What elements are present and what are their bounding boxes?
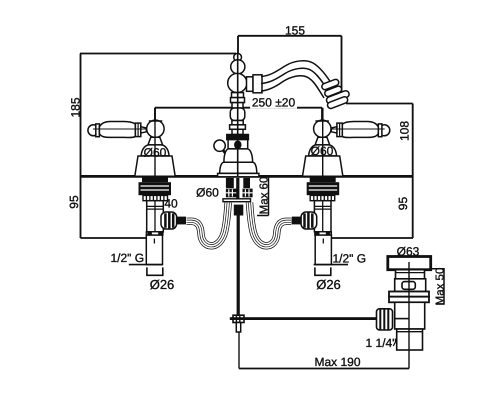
right hose nipple block (243, 178, 250, 188)
max60 bracket (257, 177, 269, 216)
svg-text:95: 95 (67, 195, 81, 209)
svg-text:250 ±20: 250 ±20 (252, 96, 296, 110)
spout root collar big (253, 75, 262, 93)
left hose nipple block (226, 178, 234, 188)
spout tube middle curve (261, 68, 329, 91)
base skirt (218, 173, 259, 176)
valve body below deck (147, 201, 164, 232)
tailpiece centerline stub (153, 239, 155, 244)
column centerline overlay (237, 54, 239, 176)
svg-text:Ø60: Ø60 (311, 144, 334, 158)
155 dim line (238, 35, 342, 37)
column ring 1 (232, 121, 243, 125)
centerline lower (154, 121, 156, 176)
spout root collar small (247, 77, 254, 92)
clevis (233, 315, 244, 322)
svg-text:1 1/4": 1 1/4" (366, 336, 397, 350)
tailpiece line (397, 331, 423, 333)
drain ring 1 (389, 292, 429, 297)
overflow window (402, 282, 415, 290)
set screw dot (235, 141, 241, 148)
valve dome (141, 145, 169, 156)
svg-text:Max 190: Max 190 (314, 355, 360, 369)
outlet hub ribs (165, 212, 173, 228)
max190 left extension (238, 332, 240, 369)
handle ball joint (147, 120, 164, 137)
ball joint top cap (149, 120, 163, 122)
linkage knob (377, 309, 393, 330)
handle collar rings (135, 123, 140, 137)
svg-text:Ø26: Ø26 (316, 277, 341, 292)
locking collar band (142, 177, 168, 182)
drain neck line (396, 272, 425, 274)
escutcheon (135, 156, 175, 176)
linkage knob ridges (380, 309, 388, 330)
max50 bracket (431, 269, 444, 304)
155 left drop to faucet (237, 36, 239, 54)
drain top cap (388, 257, 431, 270)
Ø26 bracket (147, 267, 163, 275)
spout tube top curve (261, 61, 333, 86)
left 1/2G leader (129, 264, 163, 266)
connection bar (223, 199, 251, 202)
right 1/2G leader (314, 264, 348, 266)
valve centerline (154, 108, 156, 176)
ribbed flange (143, 195, 168, 200)
stem flare (148, 137, 163, 145)
right hose nut slits (243, 189, 253, 196)
finial ball 2 (231, 60, 245, 74)
right vertical (108/95 extension) (412, 104, 414, 239)
spout joint ball (228, 73, 247, 92)
svg-text:95: 95 (396, 197, 410, 211)
svg-text:1/2" G: 1/2" G (111, 251, 145, 265)
column collar band 2 (231, 98, 245, 103)
flex hose to mixer (187, 203, 229, 246)
max190 dim line (239, 368, 409, 370)
svg-text:1/2" G: 1/2" G (333, 252, 367, 266)
handle axis line (93, 128, 147, 130)
finial small ball (234, 53, 242, 61)
column ring 2 (230, 125, 246, 130)
outlet ridge bar 2 (324, 85, 343, 97)
drain body (395, 279, 426, 292)
drain centerline (408, 262, 410, 350)
svg-text:Ø60: Ø60 (196, 186, 219, 200)
bottom 95 line right (330, 237, 413, 239)
svg-text:Max 50: Max 50 (434, 268, 446, 306)
rod lower stem (236, 323, 240, 333)
outlet hub (161, 212, 177, 229)
handle neck (141, 127, 147, 133)
spout height reference line (346, 103, 413, 105)
svg-text:108: 108 (397, 121, 411, 141)
outlet ridge bar 3 (spray face) (326, 90, 350, 105)
pop-up lift lever (223, 150, 231, 160)
ribbed flange ticks (146, 196, 164, 201)
outer box left vertical (185/95 extension) (80, 54, 82, 239)
bottom 95 line left (81, 237, 148, 239)
locking nut slits (141, 186, 170, 190)
svg-text:Ø26: Ø26 (150, 277, 175, 292)
column ring 3 (232, 129, 243, 134)
white knockout behind 250 label (250, 96, 297, 109)
drain neck (396, 270, 425, 279)
handle tip collar (96, 124, 100, 137)
drain tailpiece (397, 329, 423, 350)
tailpiece flange black blocks (147, 232, 163, 235)
svg-text:155: 155 (285, 24, 305, 38)
pop-up rod guide (234, 205, 244, 216)
svg-text:185: 185 (69, 97, 83, 117)
inner 250 box top (155, 107, 322, 109)
locking nut (139, 182, 172, 195)
body centerline (154, 201, 156, 232)
body band lines (147, 206, 164, 209)
pop-up rod upper segment (236, 178, 239, 199)
column baluster bulge (230, 108, 245, 121)
clevis inner lines (236, 315, 239, 322)
horizontal linkage rod (230, 317, 377, 320)
outlet fitting (177, 217, 186, 225)
pop-up rod (237, 216, 240, 316)
rod into drain body (395, 318, 410, 320)
bell tier 2 (220, 162, 257, 173)
svg-text:40: 40 (164, 197, 178, 211)
column collar band 3 (232, 103, 243, 108)
svg-text:Ø60: Ø60 (144, 146, 167, 160)
outlet ridge bar 1 (321, 78, 340, 90)
left hose nut (226, 189, 238, 198)
handle barrel (99, 122, 135, 138)
max190 right extension (408, 350, 410, 369)
column dark band (227, 135, 249, 140)
1 1/4 leader tick (393, 340, 396, 347)
column collar band 1 (232, 93, 244, 98)
inner 250 box right drop (321, 108, 323, 122)
svg-text:Ø63: Ø63 (397, 245, 420, 259)
tailpiece tube (146, 235, 162, 265)
inner 250 box left drop (154, 108, 156, 122)
svg-text:Max 60: Max 60 (259, 177, 271, 215)
drain lower body (395, 302, 425, 329)
set screw collar (228, 140, 248, 149)
pop-up lift knob (214, 140, 225, 151)
bell tier 1 (224, 149, 253, 162)
drain ring 2 (389, 297, 429, 303)
outer box top line (80, 53, 236, 55)
spout tube bottom curve (261, 76, 324, 98)
center column centerline (237, 54, 239, 176)
deck line (80, 175, 413, 178)
right hose nut (243, 189, 253, 198)
left hose nut slits (226, 189, 238, 196)
handle tip ball (88, 125, 99, 136)
155 right drop to spout outlet (341, 36, 343, 100)
outlet ridge bar 4 (327, 96, 349, 110)
tailpiece flange (146, 232, 163, 235)
